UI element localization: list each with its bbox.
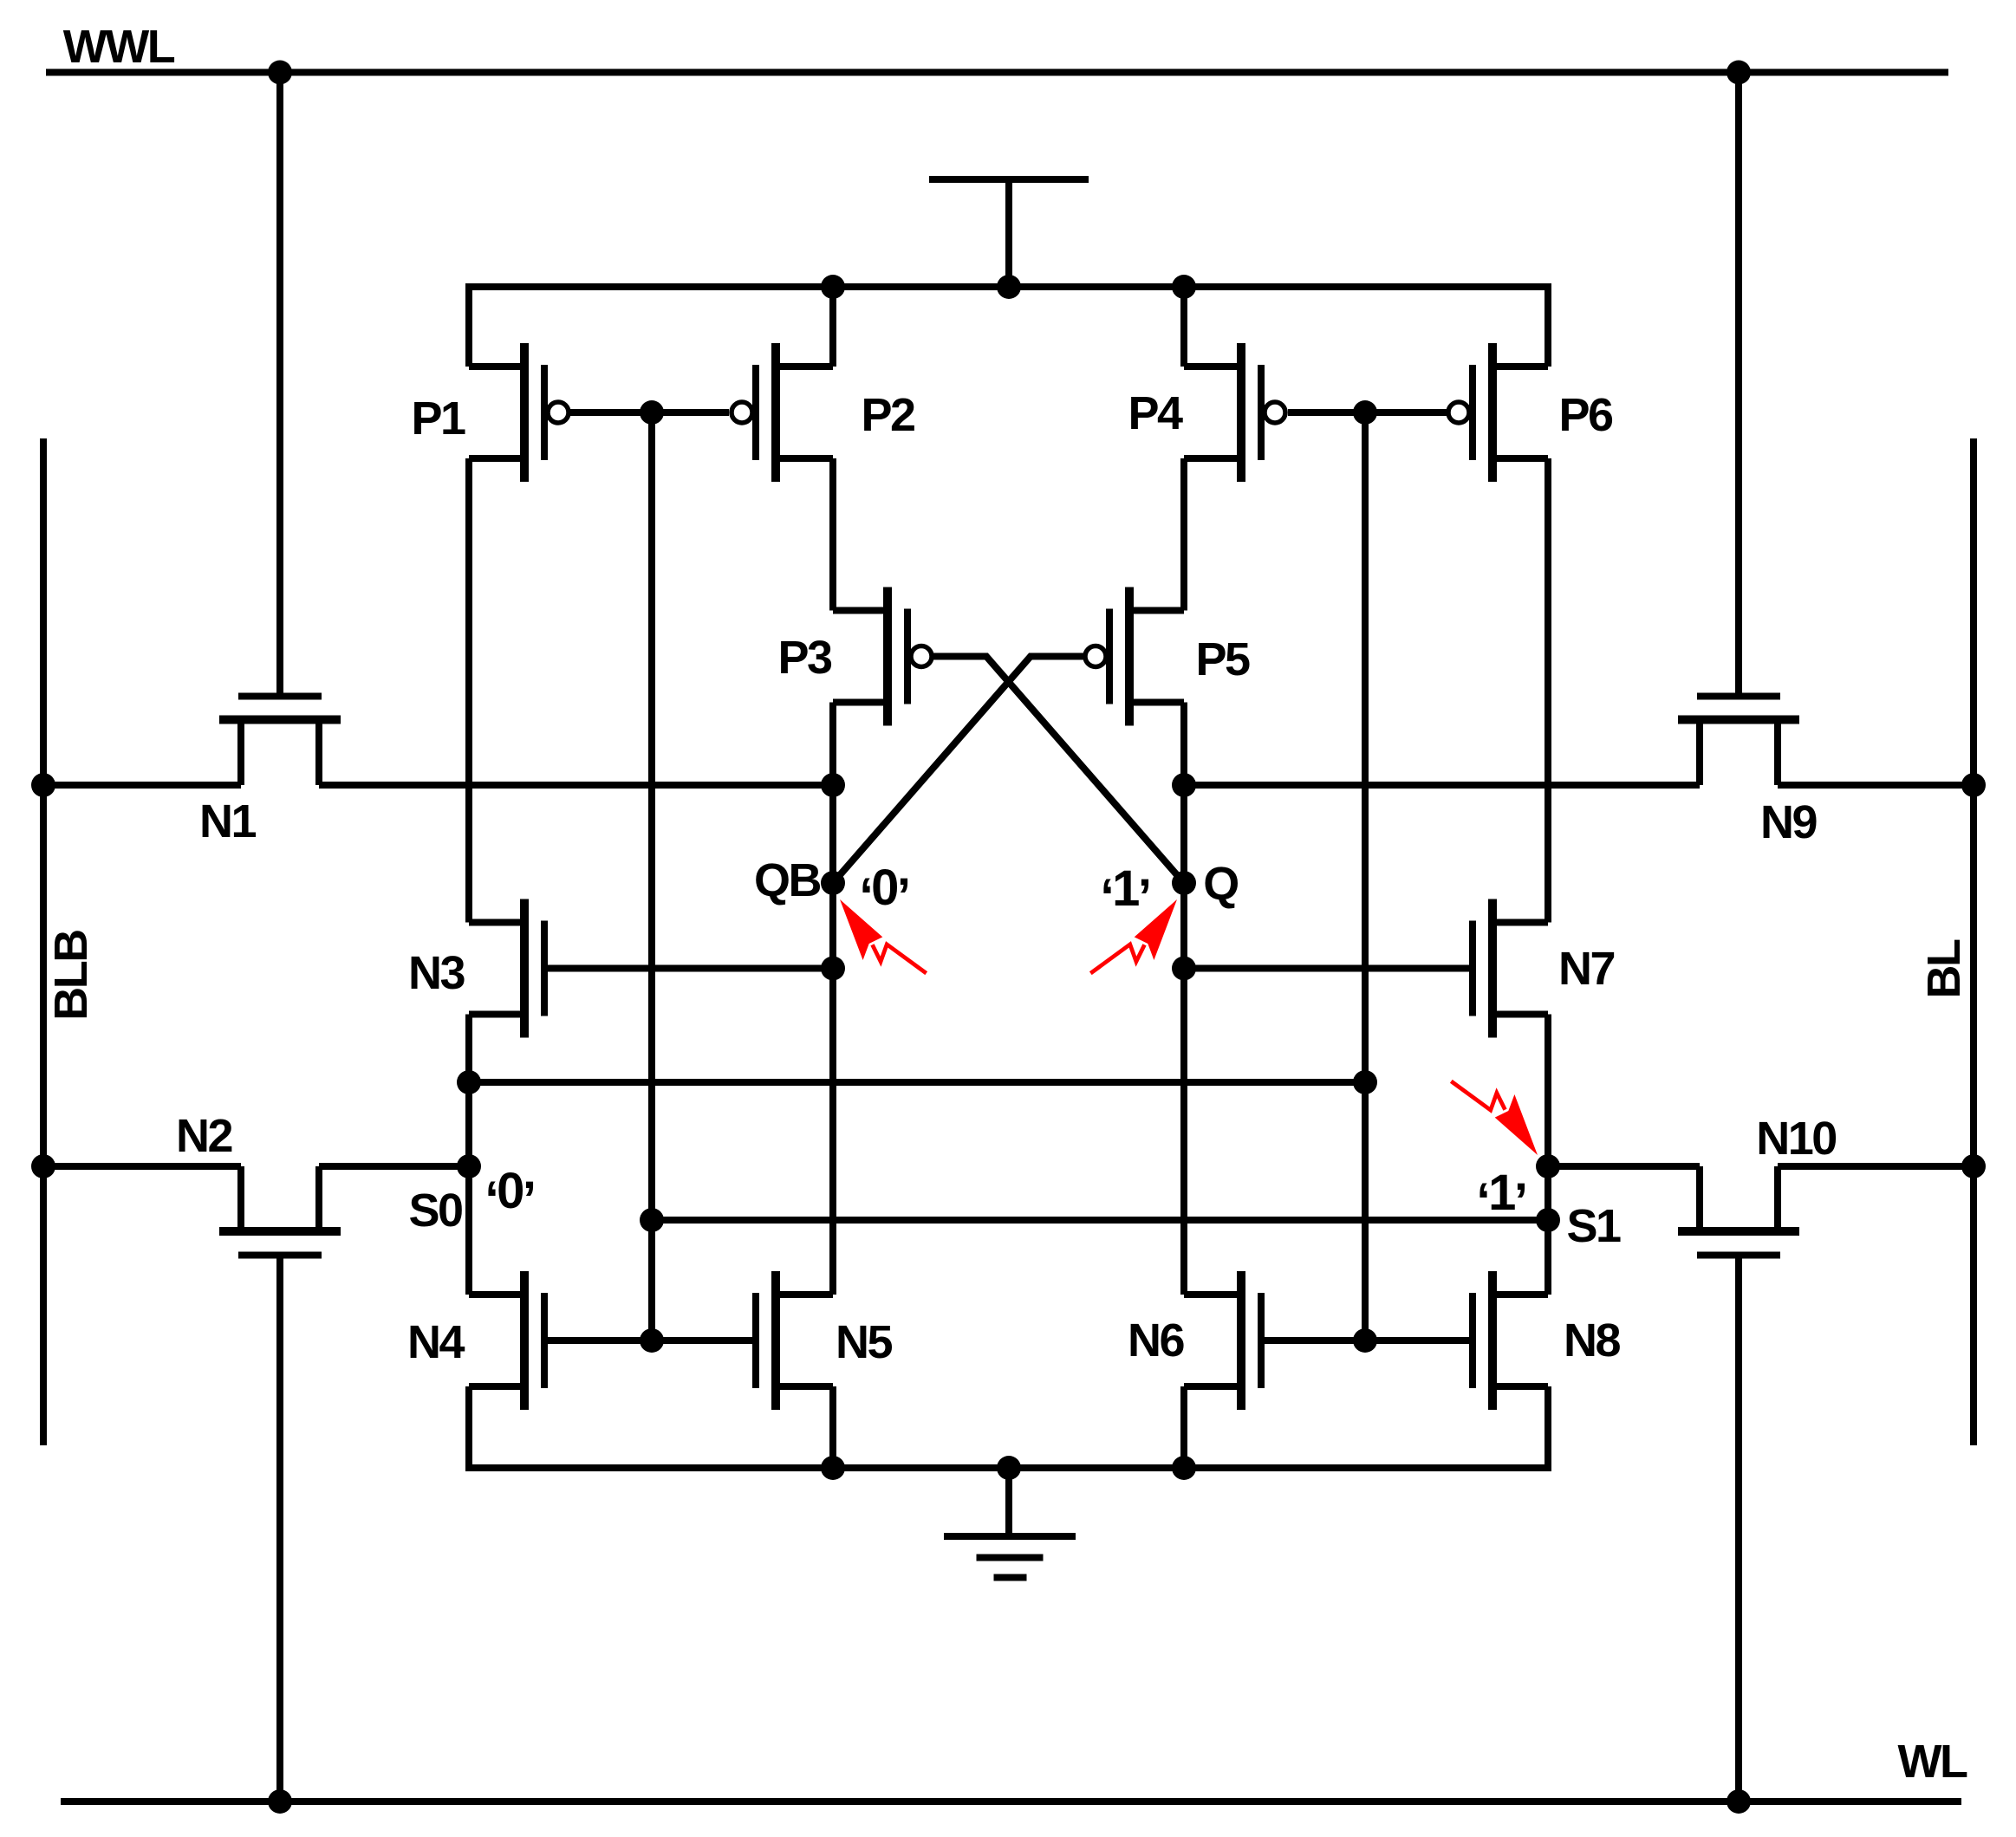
svg-text:N9: N9 bbox=[1760, 796, 1817, 848]
svg-text:WWL: WWL bbox=[63, 21, 175, 73]
wire N9 drain to Q bbox=[1184, 782, 1700, 789]
wire N3 gate to QB bbox=[544, 965, 833, 972]
svg-text:S1: S1 bbox=[1566, 1200, 1621, 1252]
wire N1 drain to QB bbox=[319, 782, 833, 789]
wire WWL line bbox=[46, 69, 1948, 76]
wire P6 drain to N7 source bbox=[1545, 458, 1551, 923]
wire N4-N5 gate link bbox=[544, 1337, 755, 1344]
strike arrow at QB bbox=[840, 899, 927, 973]
svg-text:P4: P4 bbox=[1128, 387, 1183, 439]
wire N9 gate stem bbox=[1735, 73, 1742, 693]
node VDD rail P2 junction bbox=[821, 275, 845, 299]
svg-text:‘0’: ‘0’ bbox=[484, 1163, 534, 1228]
node QB storage node bbox=[821, 871, 845, 895]
nmos N6 bbox=[1237, 1271, 1245, 1410]
nmos N9 bbox=[1678, 716, 1799, 724]
nmos N10 bbox=[1678, 1227, 1799, 1236]
node Q storage node bbox=[1172, 871, 1196, 895]
wire N6 drain to ground rail bbox=[1180, 1386, 1187, 1468]
wire P3 gate to Q cross-couple bbox=[932, 657, 1184, 884]
wire BLB to N1 source bbox=[43, 782, 241, 789]
wire right gate vertical bbox=[1362, 412, 1369, 1340]
svg-text:N5: N5 bbox=[836, 1316, 892, 1368]
nmos N2 bbox=[219, 1227, 341, 1236]
wire P5 gate to QB cross-couple bbox=[833, 657, 1085, 884]
svg-text:‘1’: ‘1’ bbox=[1100, 860, 1149, 925]
wire left gate vertical bbox=[648, 412, 655, 1340]
wire BLB bit line bbox=[40, 438, 47, 1445]
node S1 to left-gates junction bbox=[1536, 1208, 1560, 1232]
node BL-N9 junction bbox=[1961, 773, 1986, 797]
node Q-N7 gate junction bbox=[1172, 957, 1196, 981]
wire P4 source to rail bbox=[1180, 287, 1187, 367]
svg-text:P3: P3 bbox=[777, 632, 832, 684]
node ground rail N5 junction bbox=[821, 1456, 845, 1480]
pmos P1 bbox=[520, 343, 529, 482]
wire P1-P2 gate link bbox=[569, 409, 729, 416]
node BLB-N1 junction bbox=[31, 773, 55, 797]
strike arrow at Q bbox=[1090, 899, 1177, 973]
wire N7 gate to Q bbox=[1184, 965, 1473, 972]
wire ground rail bbox=[469, 1386, 1548, 1468]
wire N9 source to BL bbox=[1778, 782, 1974, 789]
node ground rail N6 junction bbox=[1172, 1456, 1196, 1480]
node WWL-N9 gate junction bbox=[1727, 61, 1751, 85]
svg-text:N8: N8 bbox=[1564, 1314, 1620, 1366]
wire N2 drain to S0 bbox=[319, 1163, 469, 1170]
node QB-N1 junction bbox=[821, 773, 845, 797]
node N4-N5 gate junction bbox=[640, 1328, 664, 1353]
node left gate vertical S1 junction bbox=[640, 1208, 664, 1232]
pmos P4 bbox=[1237, 343, 1245, 482]
wire N2 gate stem bbox=[276, 1259, 283, 1802]
nmos N7 bbox=[1488, 899, 1497, 1038]
svg-text:P6: P6 bbox=[1558, 389, 1613, 441]
svg-text:P5: P5 bbox=[1195, 633, 1250, 685]
nmos N4 bbox=[520, 1271, 529, 1410]
wire S1 to N10 source bbox=[1548, 1163, 1700, 1170]
nmos N8 bbox=[1488, 1271, 1497, 1410]
node QB-N3 gate junction bbox=[821, 957, 845, 981]
node S1 storage node bbox=[1536, 1154, 1560, 1178]
node S0 storage node bbox=[457, 1154, 481, 1178]
svg-text:N1: N1 bbox=[199, 795, 256, 847]
node VDD rail stem junction bbox=[997, 275, 1021, 299]
wire S0 to P4-P6-N6-N8 gates bbox=[469, 1079, 1365, 1086]
wire BLB to N2 source bbox=[43, 1163, 241, 1170]
wire N1 gate stem bbox=[276, 73, 283, 693]
node N6-N8 gate junction bbox=[1353, 1328, 1377, 1353]
nmos N1 bbox=[219, 716, 341, 724]
wire N5 drain to ground rail bbox=[829, 1386, 836, 1468]
wire P4 drain to P5 source bbox=[1180, 458, 1187, 611]
wire P4-P6 gate link bbox=[1288, 409, 1448, 416]
pmos P6 bbox=[1488, 343, 1497, 482]
svg-text:N4: N4 bbox=[407, 1316, 465, 1368]
wire N10 drain to BL bbox=[1778, 1163, 1974, 1170]
svg-text:‘1’: ‘1’ bbox=[1476, 1165, 1525, 1230]
wire S1 column bbox=[1545, 1015, 1551, 1295]
wire WL line bbox=[61, 1798, 1961, 1805]
svg-text:N2: N2 bbox=[176, 1110, 231, 1162]
svg-text:WL: WL bbox=[1898, 1736, 1967, 1788]
wire P2 source to rail bbox=[829, 287, 836, 367]
node P4-P6 gate junction bbox=[1353, 400, 1377, 425]
node BL-N10 junction bbox=[1961, 1154, 1986, 1178]
wire N6-N8 gate link bbox=[1262, 1337, 1473, 1344]
wire VDD rail bbox=[469, 287, 1548, 367]
node S0 to right-gates junction bbox=[457, 1070, 481, 1094]
node ground rail stem junction bbox=[997, 1456, 1021, 1480]
svg-text:N6: N6 bbox=[1128, 1314, 1184, 1366]
power VDD symbol bbox=[929, 176, 1089, 183]
svg-text:N10: N10 bbox=[1756, 1113, 1836, 1165]
svg-text:S0: S0 bbox=[408, 1185, 462, 1237]
node Q-N9 junction bbox=[1172, 773, 1196, 797]
node VDD rail P4 junction bbox=[1172, 275, 1196, 299]
node WL-N10 gate junction bbox=[1727, 1789, 1751, 1814]
node WWL-N1 gate junction bbox=[268, 61, 292, 85]
svg-text:Q: Q bbox=[1203, 858, 1238, 910]
ground symbol bbox=[1005, 1468, 1012, 1536]
svg-text:P1: P1 bbox=[411, 393, 465, 445]
wire P1 drain to N3 source bbox=[465, 458, 472, 923]
node WL-N2 gate junction bbox=[268, 1789, 292, 1814]
nmos N3 bbox=[520, 899, 529, 1038]
wire Q column bbox=[1180, 703, 1187, 1295]
svg-text:‘0’: ‘0’ bbox=[859, 860, 908, 925]
wire BL bit line bbox=[1970, 438, 1977, 1445]
svg-text:QB: QB bbox=[754, 854, 821, 906]
pmos P2 bbox=[771, 343, 780, 482]
strike arrow at S1 bbox=[1451, 1081, 1538, 1155]
svg-text:BLB: BLB bbox=[45, 931, 97, 1021]
wire QB column bbox=[829, 703, 836, 1295]
wire P2 drain to P3 source bbox=[829, 458, 836, 611]
svg-text:N3: N3 bbox=[408, 947, 465, 999]
svg-text:BL: BL bbox=[1918, 939, 1970, 998]
wire S0 column bbox=[465, 1015, 472, 1295]
node P1-P2 gate junction bbox=[640, 400, 664, 425]
wire N10 gate stem bbox=[1735, 1259, 1742, 1802]
node right gate vertical S0 junction bbox=[1353, 1070, 1377, 1094]
pmos P5 bbox=[1125, 587, 1134, 726]
svg-text:P2: P2 bbox=[861, 389, 914, 441]
pmos P3 bbox=[883, 587, 892, 726]
nmos N5 bbox=[771, 1271, 780, 1410]
node BLB-N2 junction bbox=[31, 1154, 55, 1178]
wire S1 to P1-P2-N4-N5 gates bbox=[652, 1217, 1548, 1224]
svg-text:N7: N7 bbox=[1558, 943, 1614, 995]
